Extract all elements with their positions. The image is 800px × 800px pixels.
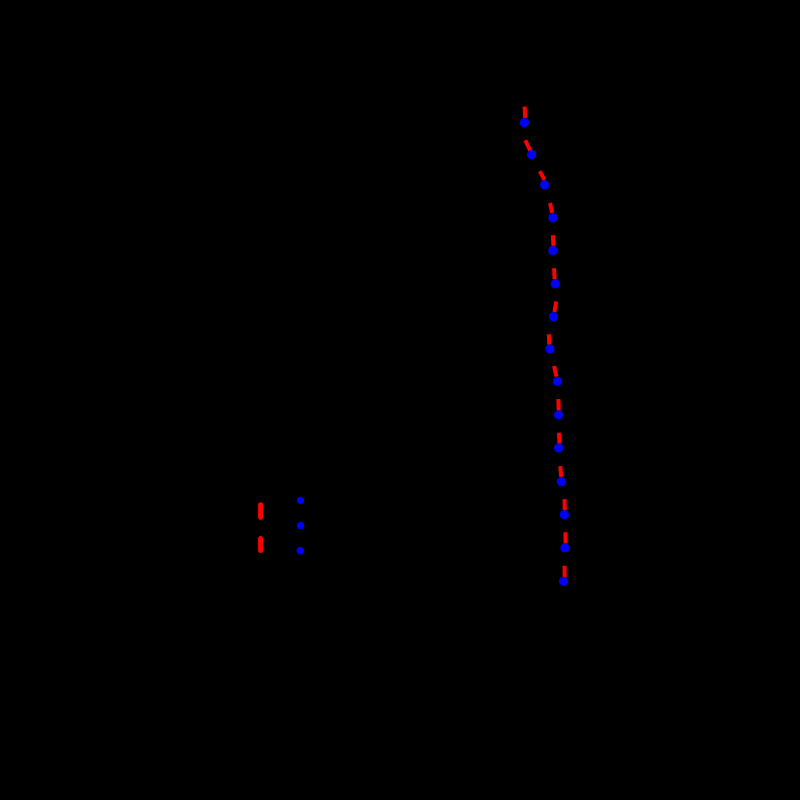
dash segment 15 — [563, 566, 567, 578]
data point 7 — [549, 312, 558, 321]
dash segment 13 — [563, 499, 567, 510]
data point 4 — [548, 213, 557, 222]
data point 9 — [553, 377, 562, 386]
legend line dash 1 — [258, 505, 263, 518]
data point 14 — [560, 543, 569, 552]
dash segment 10 — [556, 399, 560, 410]
dash segment 8 — [547, 334, 552, 344]
dash segment 1 — [523, 107, 528, 119]
dash segment 7 — [554, 302, 556, 313]
legend marker 2 — [297, 522, 304, 529]
dash segment 6 — [552, 268, 557, 279]
data point 3 — [540, 180, 549, 189]
data point 5 — [548, 246, 557, 255]
data point 1 — [520, 118, 529, 127]
dash segment 2 — [525, 140, 530, 151]
dash segment 9 — [554, 366, 557, 377]
dash segment 14 — [563, 532, 567, 543]
data point 10 — [554, 410, 563, 419]
legend marker 1 — [297, 497, 304, 504]
data point 12 — [557, 477, 566, 486]
legend marker 3 — [297, 547, 304, 554]
data point 2 — [527, 150, 536, 159]
data point 11 — [554, 443, 563, 452]
dash segment 11 — [557, 433, 561, 444]
data point 15 — [559, 577, 568, 586]
dash segment 5 — [551, 235, 556, 246]
dash segment 3 — [540, 171, 545, 180]
dash segment 12 — [558, 466, 563, 477]
data point 8 — [545, 344, 554, 353]
data point 13 — [560, 510, 569, 519]
data point 6 — [551, 279, 560, 288]
legend line dash 2 — [258, 539, 263, 551]
dash segment 4 — [550, 203, 552, 213]
